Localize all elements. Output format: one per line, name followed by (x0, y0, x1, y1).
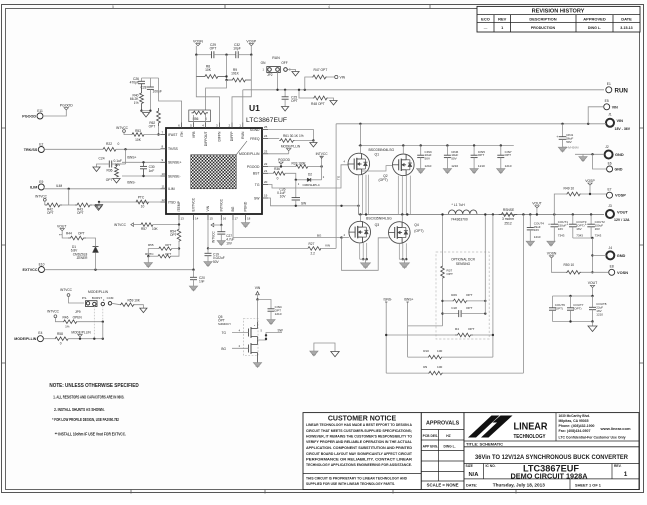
ground R59 (140, 308, 147, 313)
node INTVCC flag jp9 top (60, 288, 84, 303)
svg-text:OPT: OPT (106, 178, 113, 182)
ground CIN3 gray (417, 169, 425, 174)
svg-text:Q3: Q3 (375, 223, 380, 227)
svg-text:NOTE: UNLESS OTHERWISE SPECIFI: NOTE: UNLESS OTHERWISE SPECIFIED (49, 383, 138, 389)
ground C19 gray (204, 262, 212, 267)
svg-text:1210: 1210 (596, 312, 603, 316)
ground Q3 gray (365, 259, 367, 263)
wire TK/SS branch down (125, 149, 127, 164)
svg-text:U1: U1 (249, 103, 260, 113)
svg-text:APP ENG.: APP ENG. (423, 445, 439, 449)
svg-text:MODE/PLLIN: MODE/PLLIN (239, 152, 260, 156)
svg-text:J4: J4 (609, 246, 613, 250)
capacitor COUT8 22uF 16V 1210 (589, 296, 607, 322)
resistor R33 100K (292, 161, 322, 168)
title text (466, 441, 628, 461)
svg-text:Q1: Q1 (375, 152, 380, 156)
svg-text:2. INSTALL SHUNTS AS SHOWN.: 2. INSTALL SHUNTS AS SHOWN. (54, 407, 104, 412)
svg-text:+: + (585, 222, 587, 226)
svg-text:0: 0 (277, 177, 279, 181)
transistor Q4 OPT (389, 215, 424, 244)
svg-text:OPT: OPT (468, 327, 474, 331)
ground RNTC gray (147, 256, 149, 262)
resistor R37 OPT (441, 213, 453, 326)
svg-text:Phone: (408)432-1900: Phone: (408)432-1900 (559, 424, 595, 428)
wire BG to Q5 gate (232, 347, 249, 349)
svg-text:1nF: 1nF (149, 169, 155, 173)
svg-text:191K: 191K (231, 72, 240, 76)
svg-text:VIN: VIN (617, 118, 624, 123)
wire J2 E6 gnd link (575, 153, 604, 155)
svg-text:ITH: ITH (180, 131, 184, 137)
svg-text:R46: R46 (63, 315, 69, 319)
capacitor C27 4.7uF 10V (217, 225, 234, 245)
transistor Q3 BSC035N04LSG (344, 215, 393, 243)
resistor R44 OPT with stars (59, 232, 96, 243)
svg-text:P.S.: P.S. (82, 296, 87, 300)
svg-text:MODE/PLLIN: MODE/PLLIN (71, 330, 91, 334)
wire Q3 source to ground (359, 243, 361, 259)
resistor R36b 0 BST (268, 167, 296, 180)
resistor R53 10K (132, 129, 161, 142)
svg-text:SUPPLIED FOR USE WITH LINEAR T: SUPPLIED FOR USE WITH LINEAR TECHNOLOGY … (306, 482, 395, 486)
wire R10 riser to rail (492, 215, 494, 336)
svg-text:MODE/PLLIN: MODE/PLLIN (14, 337, 37, 341)
svg-text:TK/SS: TK/SS (168, 147, 179, 151)
svg-text:TG: TG (255, 183, 260, 187)
svg-text:OPT: OPT (47, 211, 54, 215)
wire ITSD PTC row (99, 201, 161, 203)
zone tick marks right (639, 127, 643, 129)
wire TG to Q5 gate (232, 332, 249, 334)
capacitor CIN4 OPT 1210 (258, 300, 282, 320)
wire drain node line (358, 145, 513, 147)
svg-text:HZ: HZ (446, 434, 450, 438)
terminal E4 MODE/PLLIN (14, 331, 43, 342)
svg-text:REVISION HISTORY: REVISION HISTORY (532, 9, 585, 15)
resistor R9 191K (227, 55, 252, 82)
resistor R56 0 in box (189, 110, 211, 123)
Linear Technology LT logo (468, 416, 548, 441)
svg-text:23: 23 (264, 149, 268, 153)
svg-text:OPT: OPT (149, 125, 156, 129)
resistor R48 OPT (298, 89, 328, 106)
capacitor C30 1nF (140, 161, 155, 177)
wire TG pin 20 to Q1 gate (268, 165, 348, 188)
svg-text:N/A: N/A (469, 472, 480, 478)
node VOSP flag (246, 39, 256, 54)
svg-text:0.1uF: 0.1uF (114, 159, 122, 163)
wire ITEMP INTVCC R57 row (114, 223, 141, 227)
revision history table (477, 6, 640, 32)
wire ISNS+ to DCR node (408, 325, 443, 327)
wire pin 13 stub down (178, 220, 180, 225)
svg-text:C18: C18 (451, 306, 457, 310)
svg-text:LTC Confidential-For Customer: LTC Confidential-For Customer Use Only (559, 436, 626, 440)
capacitor CIN3 10uF 50V 1210 (417, 146, 432, 169)
node VOSN flag (193, 39, 203, 54)
node SGND junction (312, 139, 314, 141)
ground CIN4 gray (267, 320, 275, 325)
svg-text:100: 100 (437, 349, 442, 353)
svg-text:SHEET 1 OF 1: SHEET 1 OF 1 (575, 482, 602, 487)
approvals box (421, 413, 464, 490)
wire BG pin 17 to gates (233, 220, 342, 238)
resistor R22 0 (103, 142, 120, 151)
svg-text:SENSING: SENSING (456, 262, 471, 266)
svg-text:3-15-13: 3-15-13 (620, 26, 632, 30)
capacitor C32 10pF (227, 43, 252, 58)
svg-text:R53: R53 (135, 129, 141, 133)
svg-text:R44: R44 (66, 232, 72, 236)
node RNTC left junction (147, 255, 149, 257)
svg-text:REV.: REV. (614, 464, 622, 468)
svg-text:100pF: 100pF (153, 90, 162, 94)
resistor R46 OPEN (63, 315, 105, 328)
svg-text:MODE/PLLIN: MODE/PLLIN (88, 290, 109, 294)
svg-text:1210: 1210 (451, 164, 458, 168)
resistor RNTC OPT (145, 249, 179, 258)
svg-text:R59 10K: R59 10K (128, 299, 141, 303)
svg-text:TECHNOLOGY APPLICATIONS ENGINE: TECHNOLOGY APPLICATIONS ENGINEERING FOR … (306, 463, 412, 467)
svg-text:2.2: 2.2 (311, 252, 316, 256)
svg-text:GND: GND (615, 152, 624, 157)
node divider top junctions (195, 54, 197, 56)
svg-text:ILIM: ILIM (30, 185, 37, 189)
svg-text:BG: BG (317, 233, 322, 237)
svg-text:(OPT): (OPT) (573, 306, 581, 310)
svg-text:VIN: VIN (325, 244, 330, 248)
svg-text:VOSP: VOSP (246, 39, 256, 43)
svg-text:50V: 50V (566, 140, 572, 144)
wire J4 to gnd bus (592, 254, 606, 256)
terminal E9 ILIM (30, 180, 44, 190)
svg-text:PGOOD: PGOOD (22, 114, 36, 118)
svg-text:R33 100K: R33 100K (292, 161, 307, 165)
svg-text:+: + (556, 135, 558, 139)
wire Q4 gate link from BG (342, 238, 389, 271)
svg-text:1nF: 1nF (199, 280, 205, 284)
svg-text:16V: 16V (115, 163, 122, 167)
zone tick marks left (2, 127, 6, 129)
svg-text:GND: GND (615, 168, 623, 172)
svg-text:HOWEVER, IT REMAINS THE CUSTOM: HOWEVER, IT REMAINS THE CUSTOMER'S RESPO… (306, 435, 412, 439)
wire VIN pin 15 down (207, 220, 209, 248)
svg-text:CIRCUIT BOARD LAYOUT MAY SIGNI: CIRCUIT BOARD LAYOUT MAY SIGNIFICANTLY A… (306, 452, 413, 456)
svg-text:15: 15 (210, 217, 214, 221)
svg-text:11: 11 (162, 185, 165, 189)
capacitor C25 OPT (282, 89, 298, 107)
svg-text:BURST: BURST (92, 296, 102, 300)
svg-text:Fax: (408)434-0507: Fax: (408)434-0507 (559, 429, 591, 433)
svg-text:12V / 12A: 12V / 12A (614, 218, 630, 222)
node MODE/PLLIN net flag (71, 330, 91, 340)
wire Q2 source bundle (397, 176, 399, 215)
svg-text:21: 21 (264, 169, 268, 173)
svg-text:0: 0 (118, 142, 120, 146)
svg-text:OPT: OPT (478, 153, 484, 157)
svg-text:SGND: SGND (250, 128, 260, 132)
svg-text:+: + (567, 222, 569, 226)
terminal E7 VOSP (607, 187, 627, 198)
svg-text:LTC3867EUF: LTC3867EUF (246, 117, 287, 124)
svg-text:4: 4 (328, 5, 330, 9)
svg-text:1630 McCarthy Blvd.: 1630 McCarthy Blvd. (559, 414, 591, 418)
wire E11 to PGOOD flag (43, 110, 66, 117)
wire SW rail (358, 214, 604, 216)
svg-text:VOSP: VOSP (615, 193, 626, 198)
svg-text:18: 18 (247, 217, 251, 221)
node VOSP flag right (585, 179, 595, 195)
svg-text:1210: 1210 (534, 235, 541, 239)
node VIN arrow flag R47 (327, 75, 346, 79)
svg-text:20: 20 (264, 180, 268, 184)
U1 exposed pad checkered (191, 155, 237, 189)
size ic-no rev row (466, 464, 628, 481)
resistor R58 0 (43, 332, 102, 345)
svg-text:16V: 16V (558, 227, 563, 231)
node ITH bottom junction (140, 110, 142, 112)
svg-text:RUN: RUN (241, 131, 245, 139)
diode D1 zener CMDZ6L8 (71, 243, 99, 270)
terminal J3 VOUT (606, 204, 630, 222)
wire EXTVCC pin 14 down (193, 220, 195, 270)
wire Q3 gate (342, 237, 349, 239)
svg-text:14: 14 (195, 217, 199, 221)
svg-text:36Vin TO 12V/12A SYNCHRONOUS B: 36Vin TO 12V/12A SYNCHRONOUS BUCK CONVER… (475, 454, 628, 461)
svg-text:7343: 7343 (558, 234, 565, 238)
capacitor C29 OPT (196, 43, 226, 58)
wire ITH to pin 6 (159, 78, 182, 123)
U1 right pin stubs and labels (239, 125, 268, 200)
capacitor COUT1 150uF 16V 7343 (548, 213, 568, 241)
node R54 bottom junction (178, 247, 180, 249)
svg-text:SW: SW (301, 201, 306, 205)
resistor R8 10K (196, 55, 226, 79)
wire ISNS+ vertical (407, 302, 409, 326)
svg-text:VERIFY PROPER AND RELIABLE OPE: VERIFY PROPER AND RELIABLE OPERATION IN … (306, 440, 412, 444)
svg-text:VOUT: VOUT (588, 281, 597, 285)
node VOUT flag at rail (532, 202, 541, 216)
wire Q1 source bundle (357, 175, 359, 215)
svg-text:OPT: OPT (170, 233, 177, 237)
wire R9 riser to rail (522, 215, 524, 374)
svg-text:OFF: OFF (281, 61, 287, 65)
svg-text:ISNS-: ISNS- (384, 297, 393, 301)
svg-text:INTVCC: INTVCC (114, 223, 127, 227)
svg-text:J2: J2 (605, 145, 609, 149)
svg-text:TECHNOLOGY: TECHNOLOGY (514, 434, 547, 440)
svg-text:10: 10 (141, 205, 145, 209)
wire Q2 gate link (362, 166, 393, 171)
svg-text:R36: R36 (274, 167, 280, 171)
wire JP2 pin2 to RUN line (277, 72, 279, 90)
svg-text:OPT: OPT (466, 306, 472, 310)
svg-text:E4: E4 (38, 331, 42, 335)
svg-text:TG: TG (222, 331, 227, 335)
svg-text:SENSE-: SENSE- (168, 174, 181, 178)
capacitor C26 470pF (130, 77, 145, 85)
ground COUT block (592, 322, 594, 327)
svg-text:VOUT: VOUT (532, 202, 541, 206)
node PGOOD flag right (278, 158, 291, 167)
svg-text:INTVCC: INTVCC (212, 230, 216, 243)
svg-text:1210: 1210 (425, 164, 432, 168)
svg-text:DING L.: DING L. (588, 26, 601, 30)
svg-text:24: 24 (264, 134, 268, 138)
svg-text:50V: 50V (425, 157, 431, 161)
wire E9 ILIM to pin 11 (44, 188, 160, 190)
capacitor C20 1nF (190, 269, 205, 287)
wire PGOOD pin 22 (268, 166, 296, 168)
wire RUN main line (243, 89, 604, 91)
svg-text:SW: SW (278, 328, 283, 332)
node JP9 wire junctions (93, 338, 95, 340)
wire J1 to rail (604, 122, 606, 124)
svg-text:16V: 16V (576, 227, 581, 231)
wire divider mid to DIFFOUT (206, 80, 227, 110)
svg-text:BSC035N04LSG: BSC035N04LSG (369, 148, 395, 152)
svg-text:OPT: OPT (77, 211, 84, 215)
wire Q5 SW node (258, 333, 283, 341)
resistor R54 OPT (170, 225, 181, 249)
svg-text:(OPT): (OPT) (555, 306, 563, 310)
wire VIN rail (336, 123, 604, 125)
terminal E5 VIN (604, 99, 618, 110)
svg-text:E11: E11 (37, 109, 43, 113)
svg-text:BSC035N04LSG: BSC035N04LSG (366, 217, 392, 221)
svg-text:APPLICATION. COMPONENT SUBSTI: APPLICATION. COMPONENT SUBSTITUTION AND … (306, 446, 413, 450)
svg-text:7343: 7343 (595, 234, 602, 238)
capacitor C26b 0.1uF 10V BST-SW (277, 180, 300, 206)
svg-text:BST: BST (253, 172, 260, 176)
svg-text:VOUT: VOUT (617, 209, 628, 214)
svg-text:IC NO.: IC NO. (486, 464, 496, 468)
svg-text:EXTVCC: EXTVCC (192, 197, 196, 211)
svg-text:PRODUCTION: PRODUCTION (531, 26, 556, 30)
wire INTVCC pin 16 down (220, 220, 222, 225)
svg-text:1%: 1% (134, 101, 139, 105)
svg-text:THIS CIRCUIT IS PROPRIETARY TO: THIS CIRCUIT IS PROPRIETARY TO LINEAR TE… (306, 477, 407, 481)
svg-text:ITEMP: ITEMP (177, 200, 181, 211)
svg-text:CCM: CCM (107, 296, 114, 300)
svg-text:ILIM: ILIM (56, 184, 63, 188)
node INTVCC flag below chip (211, 223, 221, 243)
wire ISNS+ down to R10 row (407, 326, 409, 357)
svg-text:R57: R57 (141, 227, 147, 231)
svg-text:1210: 1210 (505, 164, 512, 168)
svg-text:ZENER: ZENER (77, 256, 89, 260)
svg-text:1: 1 (501, 26, 503, 30)
svg-text:RSNSE: RSNSE (503, 208, 515, 212)
svg-text:APPROVALS: APPROVALS (426, 421, 460, 427)
svg-text:VOSN: VOSN (193, 39, 203, 43)
svg-text:VIN: VIN (206, 205, 210, 211)
terminal E8 VOSN (609, 265, 629, 276)
jumper JP9 PS BURST CCM (75, 296, 114, 314)
svg-text:+: + (548, 222, 550, 226)
node R62 to IFAST (157, 133, 159, 135)
svg-text:10K: 10K (135, 138, 142, 142)
svg-text:10V: 10V (226, 241, 233, 245)
wire JP9 to R59 (112, 303, 120, 304)
optional DCR sensing dashed box (436, 252, 489, 339)
svg-text:LINEAR: LINEAR (514, 422, 548, 433)
wire SENSE+ row (122, 161, 161, 163)
svg-text:JP9: JP9 (75, 310, 81, 314)
capacitor C19 0.022uF 50V (205, 248, 225, 264)
svg-text:R49 10: R49 10 (564, 187, 575, 191)
wire MODE/PLLIN pin 23 (268, 153, 289, 155)
wire JP9 pin dashes down (93, 306, 95, 339)
svg-text:R50 10: R50 10 (564, 263, 575, 267)
svg-text:R47 OPT: R47 OPT (314, 68, 328, 72)
svg-text:Si4946CY: Si4946CY (218, 322, 231, 326)
svg-text:1: 1 (624, 471, 628, 478)
ground PGND pin 18 gray (241, 220, 249, 228)
resistor R57 10K (141, 223, 179, 231)
resistor R50 10 (564, 263, 609, 274)
resistor PTC 10 (136, 196, 149, 209)
svg-text:SCALE = NONE: SCALE = NONE (427, 483, 459, 488)
svg-text:OPEN: OPEN (73, 315, 83, 319)
svg-text:DEMO CIRCUIT 1928A: DEMO CIRCUIT 1928A (511, 472, 588, 481)
date sheet row (466, 479, 602, 490)
node VOUT flag D1 branch (57, 224, 68, 238)
svg-text:OPT: OPT (447, 272, 453, 276)
wire RUN to pin 1 (242, 90, 244, 123)
wire VOSP to DIFFP pin 2 (232, 80, 251, 123)
svg-text:VOSP: VOSP (585, 179, 595, 183)
svg-text:VIN: VIN (255, 286, 261, 290)
node VOSN flag (547, 252, 566, 273)
svg-text:1210: 1210 (275, 312, 282, 316)
node BST C26 junction (295, 179, 297, 181)
svg-text:BG: BG (231, 206, 235, 211)
ground R36 (113, 179, 120, 184)
svg-text:470pF: 470pF (130, 81, 139, 85)
node Q3 gate junction (340, 236, 342, 238)
transistor Q5 OPT Si4946CY (218, 300, 283, 363)
wire Q4 source to ground (398, 243, 400, 259)
svg-text:OPT: OPT (505, 153, 511, 157)
svg-text:ITSD: ITSD (168, 200, 176, 204)
node MODE/PLLIN flag right (281, 144, 301, 154)
ground CIN6 gray (443, 169, 451, 174)
svg-text:REV: REV (498, 17, 507, 22)
wire VOSN to DIFFN pin 3 (196, 77, 219, 123)
svg-text:50V: 50V (451, 157, 457, 161)
transistor Q1 BSC035N04LSG (344, 146, 395, 175)
svg-text:GND: GND (617, 253, 626, 258)
svg-text:DESCRIPTION: DESCRIPTION (529, 17, 556, 22)
svg-text:VIN: VIN (612, 105, 618, 109)
svg-text:SIZE: SIZE (466, 464, 474, 468)
capacitor C18 OPT (441, 306, 486, 317)
ground Q4 gray (404, 259, 406, 263)
svg-text:OPT: OPT (78, 232, 85, 236)
svg-text:PGND: PGND (244, 201, 248, 211)
svg-text:22: 22 (264, 162, 268, 166)
wire VIN riser to rail (335, 124, 337, 249)
svg-text:0: 0 (60, 342, 62, 346)
svg-text:50V: 50V (213, 260, 220, 264)
resistor R59 10K (120, 299, 143, 309)
capacitor CIN5 OPT 1210 (471, 146, 486, 169)
wire E2 to R22 (44, 148, 103, 150)
resistor R10 100 (408, 349, 493, 359)
inductor L1 7uH 744363700 (448, 203, 477, 222)
